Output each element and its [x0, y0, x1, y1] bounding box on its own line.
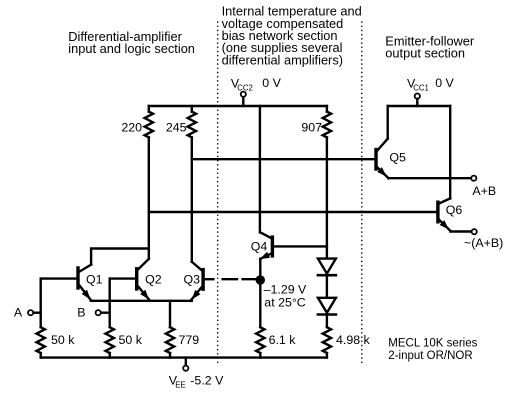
resistor 779 [166, 327, 174, 357]
input terminal B [96, 310, 110, 315]
wire: 907 lead down to diodes [326, 137, 328, 258]
section label: bias network [222, 4, 362, 68]
wire: NOR output line [450, 230, 471, 233]
input terminal A [28, 310, 41, 315]
svg-text:Q2: Q2 [145, 272, 162, 286]
wire: 245 collector lead down to Q3 collector [191, 137, 193, 261]
wire: Q6 collector vertical [449, 106, 451, 198]
junction dot: -1.29 V node [256, 275, 265, 284]
wire: OR output line [388, 177, 470, 179]
output terminal A+B [471, 176, 476, 181]
wire: VCC2 top rail [149, 105, 327, 107]
svg-text:at 25°C: at 25°C [264, 296, 306, 310]
transistor Q4 (mirrored) [258, 232, 327, 262]
svg-text:A+B: A+B [472, 184, 496, 198]
label Q5 [389, 150, 406, 164]
label Q1 [86, 272, 103, 286]
label 4.98 k [336, 333, 371, 347]
label 245 [166, 121, 187, 135]
terminal VCC2 [241, 92, 246, 106]
wire: 220 collector lead down to Q1/Q2 collectors [148, 137, 150, 258]
resistor 4.98 k [323, 327, 331, 357]
svg-text:–1.29 V: –1.29 V [264, 283, 307, 297]
svg-text:50 k: 50 k [119, 333, 143, 347]
svg-text:220: 220 [121, 121, 142, 135]
wire: A net vertical [40, 279, 42, 328]
resistor 50 k (input B) [105, 327, 113, 357]
label 6.1 k [269, 333, 297, 347]
label B [77, 306, 85, 320]
diode D1 [318, 259, 336, 276]
svg-text:Q1: Q1 [86, 272, 103, 286]
wire: OR-side line from 245 node to Q5 base [192, 158, 375, 160]
svg-text:0 V: 0 V [262, 76, 281, 90]
svg-text:EE: EE [175, 381, 185, 390]
transistor Q2 [110, 259, 152, 302]
label VEE -5.2 V [169, 374, 224, 390]
label ~(A+B) [464, 236, 503, 250]
wire: VEE bottom rail [41, 356, 327, 358]
svg-text:2-input OR/NOR: 2-input OR/NOR [388, 350, 472, 362]
transistor Q1 [41, 265, 93, 302]
svg-text:Q4: Q4 [251, 239, 268, 253]
svg-text:MECL 10K series: MECL 10K series [388, 338, 477, 350]
terminal VCC1 [415, 94, 420, 107]
resistor 50 k (input A) [37, 327, 45, 357]
svg-text:input and logic section: input and logic section [68, 41, 195, 56]
label Q3 [184, 272, 201, 286]
svg-text:~(A+B): ~(A+B) [464, 236, 503, 250]
wire: NOR-side line from 220 node to Q6 base [149, 211, 437, 213]
svg-text:Q5: Q5 [389, 150, 406, 164]
wire: Q4 emitter down through VBB node to 6.1k [259, 259, 261, 327]
svg-text:245: 245 [166, 121, 187, 135]
svg-text:4.98 k: 4.98 k [336, 333, 371, 347]
wire: bias network vertical (rail to Q4 collector) [259, 106, 261, 232]
svg-text:B: B [77, 306, 85, 320]
label 779 [179, 333, 200, 347]
svg-text:-5.2 V: -5.2 V [190, 374, 224, 388]
svg-text:0 V: 0 V [435, 76, 454, 90]
wire: common emitter line [91, 300, 192, 302]
wire: Q1 collector elbow to 220 lead [91, 249, 149, 265]
label Q6 [446, 203, 463, 217]
wire: diode to 4.98k [326, 316, 328, 328]
wire: Q5 collector vertical [387, 106, 389, 139]
wire: 779 lead from emitter line [169, 301, 171, 327]
svg-text:CC2: CC2 [237, 84, 253, 93]
resistor 6.1 k [256, 327, 264, 357]
svg-text:907: 907 [301, 121, 322, 135]
label A [14, 306, 23, 320]
output terminal ~(A+B) [472, 229, 477, 234]
transistor Q3 (mirrored) [189, 262, 213, 302]
svg-text:6.1 k: 6.1 k [269, 333, 297, 347]
label Q2 [145, 272, 162, 286]
label 220 [121, 121, 142, 135]
label 907 [301, 121, 322, 135]
svg-text:CC1: CC1 [413, 84, 429, 93]
terminal VEE [183, 358, 188, 371]
svg-text:779: 779 [179, 333, 200, 347]
section divider dotted line (right) [361, 22, 363, 365]
section label: differential-amplifier input [68, 29, 195, 56]
resistor 907 [323, 106, 331, 137]
label -1.29 V at 25 C [264, 283, 307, 310]
transistor Q5 [376, 139, 389, 179]
label VCC2 0 V [231, 76, 282, 93]
transistor Q6 [438, 198, 451, 231]
section label: emitter-follower output [385, 33, 475, 60]
svg-text:Q6: Q6 [446, 203, 463, 217]
diode D2 [318, 298, 336, 315]
wire: between diodes [326, 276, 328, 297]
wire: B net vertical [108, 279, 110, 328]
label Q4 [251, 239, 268, 253]
svg-text:differential amplifiers): differential amplifiers) [222, 52, 343, 67]
svg-text:Q3: Q3 [184, 272, 201, 286]
svg-text:A: A [14, 306, 23, 320]
label 50 k (B) [119, 333, 143, 347]
label VCC1 0 V [407, 76, 455, 93]
section divider dotted line (left) [217, 22, 219, 365]
label A+B [472, 184, 496, 198]
dashed wire: VBB reference to Q3 base [223, 278, 257, 280]
resistor 245 [188, 106, 196, 137]
wire: VCC1 top rail [388, 105, 451, 107]
svg-text:50 k: 50 k [51, 333, 75, 347]
svg-text:output section: output section [385, 46, 465, 61]
label 50 k (A) [51, 333, 75, 347]
caption: MECL 10K series 2-input OR/NOR [388, 338, 477, 363]
resistor 220 [145, 106, 153, 137]
